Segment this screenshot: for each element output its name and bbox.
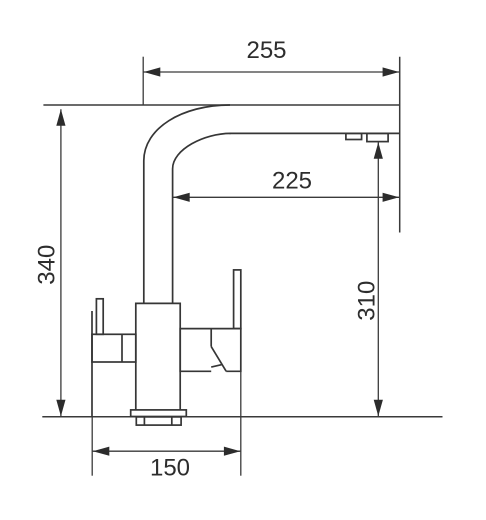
mounting surface line	[42, 416, 442, 418]
dimension line 340	[60, 109, 62, 416]
svg-text:310: 310	[354, 281, 381, 321]
arrow 255 right	[383, 67, 400, 76]
spout inner bend curve	[173, 133, 231, 303]
threaded shank below counter	[136, 417, 181, 425]
svg-text:150: 150	[150, 455, 190, 482]
svg-text:340: 340	[34, 245, 61, 285]
arrow 310 top	[374, 142, 383, 159]
spout bottom edge	[230, 132, 400, 134]
svg-text:225: 225	[272, 168, 312, 195]
right valve cartridge vertical	[210, 329, 212, 347]
base flange	[131, 410, 187, 417]
arrow 225 right	[383, 193, 400, 202]
faucet body column	[136, 303, 180, 410]
shank inner line right	[171, 417, 173, 425]
arrow 150 right	[224, 447, 241, 456]
svg-text:255: 255	[246, 37, 286, 64]
left valve divider	[121, 334, 123, 362]
left valve outer edge line	[91, 311, 93, 417]
aerator trim ring	[346, 133, 362, 139]
aerator outlet	[367, 133, 388, 141]
right valve body	[180, 329, 241, 372]
spout outer bend curve	[144, 105, 230, 303]
left lever bar	[96, 299, 103, 335]
dimension line 225	[173, 196, 400, 198]
extension line 150 right	[240, 371, 242, 475]
arrow 225 left	[173, 193, 190, 202]
extension line top (340 datum / spout top edge)	[43, 104, 399, 106]
right valve cone diagonal	[211, 347, 226, 372]
left valve body	[92, 334, 136, 362]
arrow 255 left	[144, 67, 161, 76]
extension line right (255/end of spout)	[399, 57, 401, 233]
arrow 150 left	[93, 447, 110, 456]
dimension line 310	[377, 142, 379, 416]
dimension line 150	[92, 450, 241, 452]
right valve small diagonal	[211, 365, 221, 367]
right lever bar	[234, 270, 241, 329]
dimension line 255	[143, 71, 400, 73]
extension line left 255	[142, 57, 144, 105]
shank inner line left	[143, 417, 145, 425]
arrow 340 bottom	[56, 400, 65, 417]
extension line 150 left	[91, 417, 93, 476]
arrow 310 bottom	[374, 400, 383, 417]
arrow 340 top	[56, 109, 65, 126]
